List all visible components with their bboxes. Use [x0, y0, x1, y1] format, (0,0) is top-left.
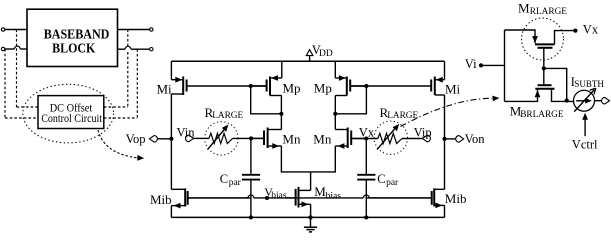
wire lower input with hop [5, 46, 27, 49]
label Vbias [264, 185, 287, 201]
svg-text:Mi: Mi [445, 82, 461, 97]
VDD rail [171, 60, 444, 62]
nmos Mn left [251, 128, 281, 149]
output terminal lower [150, 48, 153, 51]
input terminal lower [1, 47, 4, 50]
label Vctrl [572, 138, 598, 152]
label Rlarge left [205, 105, 244, 121]
svg-text:SUBTH: SUBTH [574, 79, 604, 89]
capacitor Cpar left [242, 138, 260, 219]
svg-text:Vi: Vi [465, 57, 477, 71]
wire Mp left drain to Mn left drain [280, 96, 282, 130]
dotted circle around Mrlarge [522, 18, 564, 60]
label Mrlarge [518, 1, 567, 18]
svg-text:Von: Von [465, 132, 486, 146]
ground symbol [304, 215, 317, 232]
port Vip [402, 135, 430, 142]
svg-text:Control Circuit: Control Circuit [41, 111, 102, 125]
svg-text:Mp: Mp [283, 80, 301, 95]
pmos Mi right [350, 61, 444, 95]
label Mi right [445, 82, 461, 97]
wire Vx node to Rlarge right [351, 136, 378, 140]
port Vop [149, 136, 173, 143]
label Mbrlarge [510, 103, 564, 120]
label Mn right [313, 132, 332, 147]
svg-text:Mib: Mib [150, 192, 172, 207]
VDD label [312, 43, 333, 59]
gate tie left with dots [249, 84, 284, 116]
label Mp right [314, 80, 332, 95]
svg-text:Mib: Mib [445, 191, 467, 206]
svg-text:Vop: Vop [126, 132, 146, 146]
VDD symbol [306, 50, 313, 62]
arrow Vctrl [582, 113, 588, 136]
nmos Mn right [335, 128, 366, 149]
dashed sense line from lower output [104, 49, 138, 118]
svg-text:Mn: Mn [313, 132, 332, 147]
svg-text:RLARGE: RLARGE [530, 7, 568, 17]
svg-text:BLOCK: BLOCK [52, 41, 95, 56]
label Vop [126, 132, 146, 146]
svg-text:Vx: Vx [583, 22, 599, 36]
port Vin [186, 135, 209, 142]
svg-text:par: par [386, 178, 399, 188]
svg-text:M: M [518, 1, 530, 16]
DC offset control circuit box [38, 96, 104, 129]
wire upper output [118, 29, 150, 31]
svg-text:LARGE: LARGE [212, 111, 243, 121]
wire upper input [5, 29, 27, 31]
current meter Isubth [574, 88, 610, 111]
wire gate tie detail [542, 48, 569, 103]
dotted ellipse around DC offset circuit [23, 84, 114, 143]
baseband block [27, 9, 118, 66]
resistor Rlarge left (variable) [205, 122, 238, 155]
dash-dot arrow from Rlarge right to detail [401, 96, 500, 127]
terminal Vx detail [573, 29, 577, 33]
label Vx [359, 125, 375, 139]
svg-text:BASEBAND: BASEBAND [44, 27, 110, 42]
svg-text:Mi: Mi [157, 82, 173, 97]
nmos Mbias [285, 187, 313, 220]
wire Rlarge left to gate node [233, 136, 264, 140]
label Mbias [314, 184, 341, 201]
Vbias wire with hops [188, 195, 432, 198]
ground rail [171, 216, 444, 218]
wire Vi input [479, 30, 505, 101]
label Vi [465, 57, 477, 71]
nmos Mib right [366, 139, 444, 218]
label Mib left [150, 192, 172, 207]
label Cpar left [220, 172, 242, 188]
capacitor Cpar right [357, 139, 375, 220]
svg-text:Vx: Vx [359, 125, 375, 139]
label Vin [177, 125, 196, 139]
nmos Mib left [171, 139, 251, 218]
nmos Mbrlarge (horizontal) [505, 85, 574, 101]
svg-text:par: par [229, 178, 242, 188]
label Cpar right [377, 172, 399, 188]
label Vip [414, 125, 432, 139]
svg-text:Mp: Mp [314, 80, 332, 95]
svg-text:bias: bias [326, 191, 342, 201]
svg-text:C: C [377, 172, 385, 186]
svg-text:Vip: Vip [414, 125, 432, 139]
dashed sense line from lower input [5, 49, 38, 118]
wire Mi left drain to Vop node [170, 94, 172, 139]
label Mib right [445, 191, 467, 206]
pmos Mp left [251, 61, 282, 95]
svg-text:M: M [314, 184, 326, 199]
label Mn left [282, 132, 301, 147]
wire Mp right drain to Mn right drain [334, 96, 336, 130]
Vbias node dot [265, 196, 269, 200]
svg-text:Vctrl: Vctrl [572, 138, 598, 152]
label Isubth [571, 74, 605, 89]
pmos Mrlarge (horizontal) [505, 30, 574, 48]
pmos Mp right [335, 61, 366, 95]
dashed arrow from DC circuit to Vop node [98, 130, 144, 161]
label Mi left [157, 82, 173, 97]
svg-text:DD: DD [319, 49, 333, 59]
label Von [465, 132, 486, 146]
resistor Rlarge right (variable) [374, 121, 407, 154]
svg-text:BRLARGE: BRLARGE [520, 110, 564, 120]
dashed sense line from upper output [104, 30, 128, 108]
pmos Mi left [171, 61, 266, 95]
label Vx detail [583, 22, 599, 36]
label Rlarge right [380, 105, 419, 121]
dashed sense line from upper input [17, 30, 39, 108]
svg-text:bias: bias [271, 191, 287, 201]
svg-text:C: C [220, 172, 228, 186]
svg-text:Mn: Mn [282, 132, 301, 147]
svg-text:Vin: Vin [177, 125, 196, 139]
gate tie right with dots [333, 84, 368, 116]
output terminal upper [150, 28, 153, 31]
common source rail [281, 146, 335, 190]
wire Mi right drain to Von node [444, 95, 446, 139]
port Von [442, 136, 463, 143]
wire lower output with hop [118, 46, 150, 49]
label Mp left [283, 80, 301, 95]
input terminal upper [1, 28, 4, 31]
